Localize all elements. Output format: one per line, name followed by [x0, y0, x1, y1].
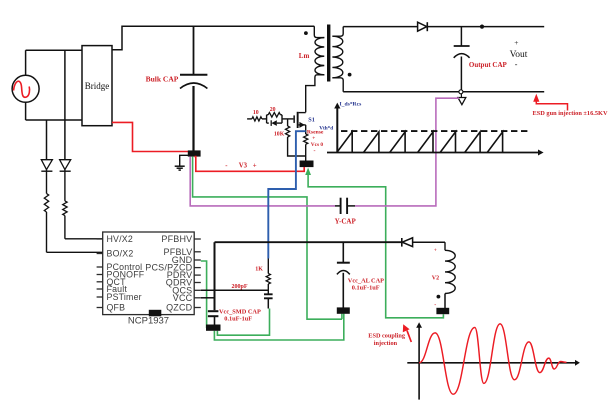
- svg-text:Output CAP: Output CAP: [469, 61, 508, 69]
- svg-text:ESD gun injection ±16.5KV: ESD gun injection ±16.5KV: [533, 110, 608, 117]
- svg-text:NCP1937: NCP1937: [128, 316, 169, 327]
- svg-text:Vth*d: Vth*d: [319, 126, 333, 132]
- svg-text:S1: S1: [308, 116, 315, 123]
- svg-text:V3: V3: [239, 162, 248, 169]
- svg-text:-: -: [434, 303, 436, 309]
- svg-text:-: -: [314, 149, 316, 155]
- svg-text:Bridge: Bridge: [85, 81, 110, 91]
- svg-text:Y-CAP: Y-CAP: [335, 217, 357, 225]
- svg-text:HV/X2: HV/X2: [107, 234, 133, 244]
- svg-text:+: +: [514, 38, 518, 47]
- svg-text:Vout: Vout: [510, 50, 528, 60]
- svg-text:20: 20: [270, 107, 276, 113]
- svg-text:Bulk CAP: Bulk CAP: [146, 75, 179, 84]
- svg-text:1K: 1K: [255, 267, 263, 273]
- svg-text:Lm: Lm: [299, 52, 310, 60]
- svg-text:PSTimer: PSTimer: [107, 292, 142, 302]
- svg-text:BO/X2: BO/X2: [107, 249, 134, 259]
- svg-text:I_ds*Rcs: I_ds*Rcs: [340, 101, 363, 107]
- svg-text:injection: injection: [374, 340, 398, 347]
- svg-text:0.1uF-1uF: 0.1uF-1uF: [352, 284, 380, 291]
- svg-text:ESD coupling: ESD coupling: [368, 333, 406, 340]
- svg-text:0.1uF-1uF: 0.1uF-1uF: [224, 315, 252, 322]
- svg-text:200pF: 200pF: [232, 284, 248, 290]
- svg-text:10K: 10K: [274, 131, 285, 137]
- svg-text:QZCD: QZCD: [166, 303, 193, 313]
- svg-text:PFBHV: PFBHV: [161, 234, 192, 244]
- svg-text:-: -: [515, 60, 518, 69]
- svg-text:+: +: [253, 162, 257, 169]
- svg-text:+: +: [434, 248, 437, 254]
- svg-text:QFB: QFB: [107, 303, 126, 313]
- svg-text:10: 10: [253, 110, 259, 116]
- svg-text:V2: V2: [432, 276, 439, 282]
- svg-text:Vcs 0: Vcs 0: [311, 142, 324, 148]
- svg-text:Vcc_AL CAP: Vcc_AL CAP: [348, 277, 384, 284]
- svg-text:+: +: [312, 136, 315, 142]
- svg-text:VCC: VCC: [173, 293, 193, 303]
